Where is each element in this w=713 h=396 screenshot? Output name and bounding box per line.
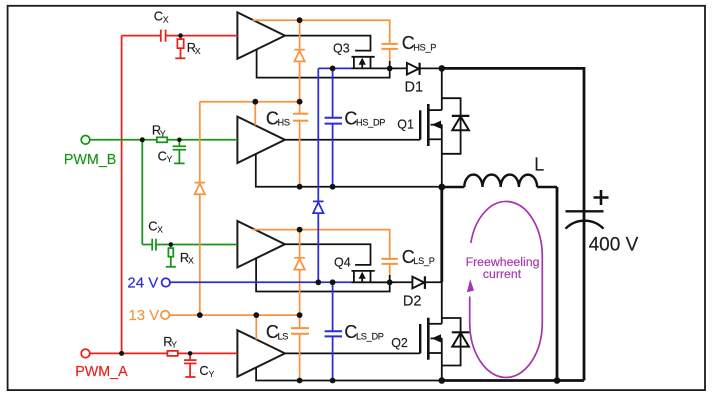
svg-text:HS_P: HS_P [413,42,436,52]
svg-text:Q1: Q1 [397,118,414,132]
svg-text:Y: Y [160,129,166,139]
svg-text:X: X [157,224,163,234]
svg-text:Q2: Q2 [391,336,408,350]
svg-text:C: C [199,363,208,378]
svg-text:Y: Y [171,340,177,350]
svg-text:C: C [158,148,167,163]
svg-text:Q4: Q4 [334,255,351,269]
svg-text:D1: D1 [405,80,424,96]
svg-text:Y: Y [167,154,173,164]
svg-text:Y: Y [209,369,215,379]
svg-text:X: X [195,46,201,56]
svg-text:PWM_A: PWM_A [75,364,128,380]
svg-text:HS: HS [278,118,290,128]
svg-text:L: L [534,154,544,174]
svg-text:LS_P: LS_P [413,256,434,266]
svg-text:X: X [188,256,194,266]
svg-text:400 V: 400 V [589,235,639,256]
svg-text:13 V: 13 V [128,307,159,324]
svg-text:LS_DP: LS_DP [356,331,384,341]
svg-text:24 V: 24 V [127,275,158,292]
svg-text:X: X [163,14,169,24]
svg-text:LS: LS [278,331,289,341]
svg-text:C: C [148,219,157,234]
svg-text:D2: D2 [403,293,422,309]
svg-text:PWM_B: PWM_B [64,152,116,168]
svg-text:Q3: Q3 [333,41,350,55]
svg-text:C: C [154,9,163,24]
svg-text:HS_DP: HS_DP [356,118,385,128]
svg-text:current: current [483,267,522,281]
